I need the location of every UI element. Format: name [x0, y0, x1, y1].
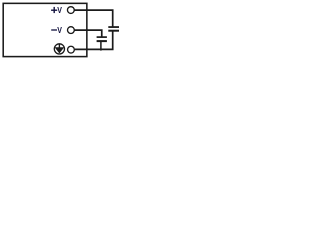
wire shield rail to C2 bottom — [75, 31, 113, 49]
terminal +V — [67, 7, 74, 14]
label -V — [51, 25, 62, 35]
sensor box outline — [3, 3, 87, 56]
capacitor C2 plate bottom — [108, 30, 119, 32]
capacitor C1 plate bottom — [97, 40, 107, 42]
wire +V to C2 top — [74, 10, 112, 27]
wire -V to C1 top — [74, 30, 101, 37]
terminal -V — [68, 27, 75, 34]
capacitor C1 plate top — [97, 36, 107, 38]
capacitor C2 plate top — [108, 26, 119, 28]
svg-text:V: V — [57, 5, 62, 15]
wire C1 bottom to 0V rail — [100, 42, 102, 51]
svg-text:V: V — [57, 25, 62, 35]
terminal shield — [68, 46, 75, 53]
shield symbol — [54, 44, 64, 54]
label +V — [51, 5, 62, 15]
